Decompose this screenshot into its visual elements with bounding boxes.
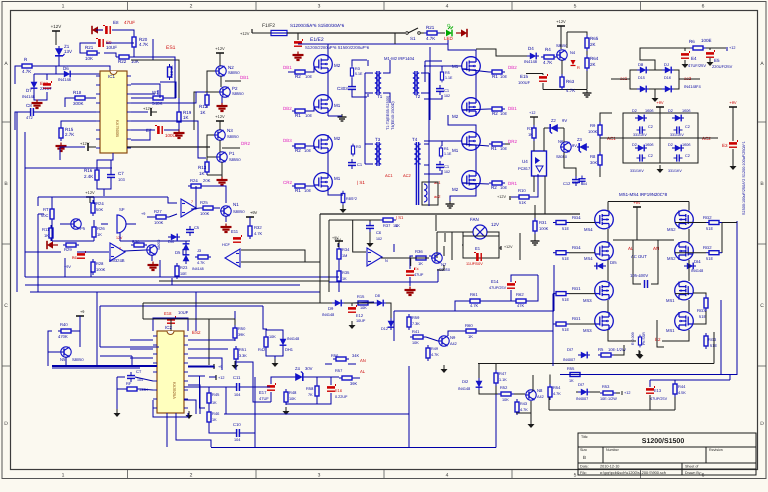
power +9V s2	[729, 100, 737, 113]
inductor L1	[422, 182, 438, 205]
svg-text:S1500:100uF/250A*2 S1200:100u: S1500:100uF/250A*2 S1200:100uF/250A*1	[742, 141, 746, 215]
wire	[52, 197, 94, 225]
wire net M	[195, 292, 197, 331]
ground	[636, 350, 643, 358]
svg-text:10E: 10E	[500, 111, 507, 116]
capacitor E1/E2	[294, 37, 370, 50]
diode DI2	[458, 378, 482, 391]
svg-text:C303: C303	[337, 86, 348, 91]
svg-text:Z2: Z2	[551, 118, 557, 123]
svg-text:R47: R47	[499, 371, 507, 376]
svg-text:M1-M2 IRF1404: M1-M2 IRF1404	[384, 56, 415, 61]
wire t2 links	[425, 47, 442, 120]
svg-text:+9V: +9V	[250, 210, 258, 215]
transformer T4	[412, 137, 421, 205]
ground	[531, 238, 540, 245]
label 331 b2	[668, 169, 682, 173]
wire	[410, 246, 444, 286]
transistor P2	[219, 86, 244, 97]
wire osc frame	[38, 197, 190, 241]
ground	[232, 361, 239, 369]
capacitor CT	[127, 369, 143, 382]
svg-text:2K: 2K	[590, 42, 596, 47]
svg-text:DR2: DR2	[241, 141, 250, 146]
resistor R62	[513, 292, 529, 308]
svg-text:R42: R42	[258, 347, 266, 352]
svg-text:M1: M1	[452, 148, 459, 153]
resistor R57	[335, 368, 357, 386]
ground	[730, 162, 737, 170]
svg-text:51K: 51K	[519, 200, 526, 205]
capacitor C6	[366, 220, 382, 241]
svg-text:R3: R3	[356, 145, 361, 149]
svg-text:1K: 1K	[44, 233, 49, 238]
svg-text:R48: R48	[289, 390, 297, 395]
svg-text:D16: D16	[664, 76, 671, 80]
power +12V r	[556, 19, 566, 32]
resistor RG2 b	[703, 245, 722, 261]
resistor R9	[588, 122, 602, 138]
wire	[367, 60, 369, 97]
svg-text:C1: C1	[444, 164, 450, 169]
wire	[613, 210, 674, 240]
svg-text:RG3: RG3	[708, 337, 717, 342]
svg-text:4.7K: 4.7K	[426, 36, 435, 41]
svg-text:R37: R37	[383, 223, 391, 228]
resistor R	[19, 57, 35, 74]
svg-text:R65: R65	[590, 36, 599, 41]
svg-text:+12V: +12V	[556, 19, 566, 24]
capacitor C303	[337, 83, 356, 93]
wire	[25, 250, 146, 277]
op-amp U2C	[367, 248, 388, 266]
wire	[534, 205, 536, 238]
svg-text:File:: File:	[580, 471, 587, 475]
svg-text:331/1KV: 331/1KV	[633, 133, 647, 137]
mosfet MS1 a	[666, 281, 693, 303]
resistor R2 b	[489, 107, 507, 116]
wire ic2 left2	[100, 306, 159, 366]
svg-text:7.3K: 7.3K	[412, 322, 420, 326]
svg-text:Z4: Z4	[295, 366, 301, 371]
wire	[569, 223, 722, 254]
mosfet MS3 a	[583, 281, 613, 303]
wire net H	[224, 366, 409, 448]
op-amp U3A	[181, 199, 196, 217]
svg-text:IN4148: IN4148	[58, 77, 72, 82]
svg-text:C1: C1	[444, 88, 450, 93]
node AL	[628, 246, 634, 251]
svg-text:300K: 300K	[73, 101, 84, 106]
svg-text:+12V: +12V	[85, 190, 95, 195]
svg-text:4.7K: 4.7K	[197, 261, 205, 265]
switch S1	[406, 28, 421, 41]
capacitor C2 2	[670, 125, 690, 137]
ground	[367, 239, 374, 247]
svg-text:DB1: DB1	[508, 106, 517, 111]
svg-text:4.7K: 4.7K	[431, 353, 439, 357]
resistor R13	[198, 159, 209, 176]
transistor N8	[525, 388, 544, 400]
svg-text:R18: R18	[73, 90, 82, 95]
svg-text:+12: +12	[624, 391, 630, 395]
svg-text:D6: D6	[63, 66, 69, 71]
svg-text:+12V: +12V	[497, 195, 506, 199]
svg-text:10E: 10E	[500, 146, 507, 151]
wire	[297, 33, 299, 40]
svg-text:R15: R15	[357, 294, 365, 299]
svg-text:4.7K: 4.7K	[254, 231, 263, 236]
wire	[104, 50, 175, 90]
svg-text:IN4148: IN4148	[322, 313, 334, 317]
diode D11	[374, 294, 386, 306]
wire	[308, 146, 343, 195]
diode D9	[322, 300, 344, 317]
svg-text:4.7K: 4.7K	[543, 60, 552, 65]
mosfet MS4 a	[584, 210, 613, 232]
svg-text:R1: R1	[295, 188, 301, 193]
svg-text:1K: 1K	[97, 232, 102, 237]
svg-text:RF: RF	[126, 381, 132, 386]
capacitor E18	[164, 310, 189, 323]
capacitor C8	[26, 103, 37, 120]
capacitor Ex	[406, 266, 424, 277]
wire	[207, 162, 222, 177]
svg-text:Z3: Z3	[577, 137, 583, 142]
transistor N2	[215, 65, 240, 76]
svg-text:IN4148: IN4148	[287, 337, 299, 341]
wire long bus	[25, 132, 112, 168]
capacitor C output	[645, 280, 648, 288]
resistor R53	[600, 384, 617, 401]
svg-text:10E: 10E	[500, 74, 507, 79]
svg-text:DB2: DB2	[508, 65, 517, 70]
wire net I	[211, 377, 496, 448]
svg-text:R63: R63	[566, 79, 575, 84]
svg-text:1K: 1K	[212, 401, 217, 405]
power arrow LED	[456, 29, 467, 37]
svg-text:1K: 1K	[200, 110, 206, 115]
svg-text:R1: R1	[492, 74, 498, 79]
svg-text:R2: R2	[491, 185, 497, 190]
svg-text:RG1: RG1	[572, 316, 581, 321]
resistor R21b	[424, 25, 440, 41]
mosfet M2 d	[452, 171, 480, 192]
svg-text:CT: CT	[136, 369, 142, 374]
wire	[426, 331, 553, 341]
label +9V osc	[141, 212, 145, 216]
node CR2	[283, 180, 292, 185]
svg-text:S8550: S8550	[556, 43, 568, 48]
label T1-T3	[386, 95, 395, 130]
capacitor C1 b	[436, 85, 450, 98]
svg-text:30V: 30V	[305, 366, 313, 371]
capacitor E13	[646, 386, 668, 401]
svg-text:+9V: +9V	[633, 200, 641, 205]
svg-text:1.1K: 1.1K	[499, 378, 507, 382]
resistor R32	[248, 223, 263, 239]
resistor R4	[541, 47, 557, 65]
label MS1-MS4	[619, 192, 668, 197]
svg-text:7: 7	[119, 247, 121, 251]
svg-text:R31: R31	[539, 220, 547, 225]
power +12V pin2	[80, 141, 94, 151]
resistor R23	[175, 263, 188, 279]
svg-text:1K: 1K	[528, 132, 533, 137]
svg-text:+9V: +9V	[656, 100, 664, 105]
svg-text:E1/E2: E1/E2	[310, 37, 324, 43]
svg-text:C7: C7	[118, 171, 124, 176]
ground	[114, 409, 121, 417]
svg-text:1606: 1606	[682, 143, 690, 147]
resistor R21	[84, 45, 100, 61]
capacitor C5	[186, 225, 200, 236]
svg-text:R4: R4	[545, 47, 551, 52]
svg-text:A42: A42	[537, 395, 544, 399]
label +12 u4	[529, 111, 538, 117]
op-amp U2A LM324	[109, 243, 125, 263]
label F1/F2	[262, 23, 275, 29]
svg-text:DI5: DI5	[610, 260, 617, 265]
svg-text:S8050: S8050	[72, 357, 84, 362]
svg-text:30K: 30K	[590, 160, 597, 165]
wire	[308, 107, 314, 111]
wire fan drop	[437, 232, 463, 258]
mosfet MS1 b	[666, 312, 693, 333]
svg-text:47UF/25V: 47UF/25V	[688, 63, 706, 68]
svg-text:C1: C1	[357, 162, 363, 167]
capacitor E3	[722, 140, 738, 148]
wire m bank links	[314, 67, 489, 184]
svg-text:R1: R1	[295, 113, 301, 118]
svg-text:SP: SP	[119, 207, 125, 212]
wire	[328, 115, 342, 117]
wire bus bot	[560, 375, 737, 381]
resistor R31	[533, 218, 549, 234]
svg-text:R8S*2: R8S*2	[346, 197, 357, 201]
diode D2 3	[632, 143, 653, 151]
node ac2 t4	[434, 194, 441, 199]
capacitor C7	[107, 171, 125, 182]
svg-text:R46: R46	[212, 411, 220, 416]
svg-text:ES2: ES2	[192, 330, 201, 335]
wire net F	[96, 292, 98, 366]
power +9V box	[334, 238, 341, 247]
wire top bus t	[328, 40, 448, 55]
ground	[446, 201, 455, 208]
svg-text:M1: M1	[334, 176, 341, 181]
svg-text:105-400V: 105-400V	[630, 273, 648, 278]
svg-text:4.5K: 4.5K	[678, 391, 686, 395]
svg-text:R: R	[577, 65, 580, 70]
wire	[476, 26, 587, 90]
svg-text:331/1KV: 331/1KV	[668, 169, 682, 173]
capacitor E1	[466, 246, 483, 266]
resistor R18	[72, 90, 88, 106]
svg-text:Revision: Revision	[709, 448, 723, 452]
svg-text:D: D	[760, 421, 764, 427]
wire sense rail	[320, 214, 580, 244]
svg-text:C: C	[4, 303, 8, 309]
svg-text:+9: +9	[141, 212, 145, 216]
power +12V r34	[332, 236, 343, 247]
svg-text:DB2: DB2	[283, 106, 292, 111]
label M1-M2 IRF1404	[384, 56, 415, 61]
diode D5b	[183, 252, 190, 264]
resistor R50	[233, 325, 246, 341]
ground	[682, 60, 689, 68]
svg-text:51E: 51E	[699, 314, 706, 319]
wire bot bus2	[236, 362, 332, 377]
svg-text:51E: 51E	[562, 256, 569, 261]
capacitor E9	[96, 39, 117, 51]
label 105-400V	[630, 273, 648, 278]
svg-text:E5: E5	[714, 58, 720, 63]
wire	[15, 112, 96, 130]
op-amp U2B flip	[222, 243, 240, 267]
svg-text:E13: E13	[654, 388, 662, 393]
svg-text:R6: R6	[689, 39, 695, 44]
capacitor C10	[233, 422, 243, 442]
resistor RG4 b	[553, 245, 581, 261]
svg-text:AC2: AC2	[403, 173, 412, 178]
svg-text:R24: R24	[190, 178, 198, 183]
svg-text:D5: D5	[175, 250, 181, 255]
svg-text:M2: M2	[452, 114, 459, 119]
svg-text:P1: P1	[229, 151, 235, 156]
optocoupler U4	[518, 151, 547, 176]
title block	[578, 433, 756, 475]
svg-text:3: 3	[318, 473, 321, 479]
wire	[48, 316, 80, 352]
svg-text:C10: C10	[233, 422, 241, 427]
resistor R10	[516, 188, 532, 205]
capacitor C2 4	[674, 154, 690, 162]
wire	[207, 92, 222, 103]
svg-text:9V: 9V	[562, 118, 567, 123]
ground	[272, 359, 279, 367]
svg-text:R62: R62	[516, 292, 524, 297]
wire	[131, 98, 179, 140]
speaker SP	[117, 207, 126, 233]
svg-text:5: 5	[574, 4, 577, 10]
resistor R44	[673, 381, 686, 397]
wire long bus1	[25, 276, 339, 278]
power +12V u4	[497, 195, 510, 200]
svg-text:IN4007: IN4007	[576, 397, 588, 401]
diode D2 4	[668, 143, 690, 151]
resistor R1v	[439, 146, 452, 159]
svg-text:R7: R7	[527, 126, 533, 131]
svg-text:T1: T1	[377, 94, 383, 99]
svg-text:R11: R11	[42, 227, 50, 232]
svg-text:D9: D9	[328, 306, 334, 311]
svg-text:4: 4	[446, 4, 449, 10]
svg-text:R21: R21	[85, 45, 94, 50]
ground	[637, 351, 644, 359]
power arrow E8	[92, 26, 103, 34]
wire ic2 left	[130, 340, 153, 358]
resistor R5	[440, 70, 453, 83]
wire	[61, 121, 96, 125]
svg-text:CR2: CR2	[283, 180, 292, 185]
svg-text:R1: R1	[491, 146, 497, 151]
svg-text:F1/F2: F1/F2	[262, 23, 275, 29]
svg-text:DJ: DJ	[664, 62, 669, 67]
wire	[288, 67, 314, 72]
svg-text:MS3: MS3	[583, 298, 592, 303]
wire	[252, 32, 405, 34]
svg-text:R5: R5	[598, 347, 604, 352]
svg-text:N1: N1	[233, 202, 239, 207]
resistor R54	[548, 384, 561, 400]
resistor R65	[585, 35, 599, 51]
svg-text:10K: 10K	[412, 341, 419, 345]
ground	[583, 90, 592, 97]
resistor R35	[337, 268, 350, 284]
wire	[448, 115, 476, 201]
wire	[567, 32, 587, 90]
resistor R41	[410, 329, 426, 345]
svg-text:1K: 1K	[183, 115, 189, 120]
wire net N	[235, 311, 236, 370]
svg-text:R36: R36	[415, 249, 423, 254]
svg-text:C5: C5	[194, 225, 200, 230]
LED G	[444, 23, 454, 41]
svg-text:R13: R13	[198, 165, 207, 170]
svg-text:13V: 13V	[64, 49, 72, 54]
fuse F1/F2	[271, 30, 287, 35]
label shunt	[631, 332, 646, 345]
svg-text:D2: D2	[668, 143, 673, 147]
svg-text:DR1: DR1	[508, 181, 517, 186]
svg-text:AN: AN	[360, 358, 366, 363]
svg-text:S8550: S8550	[232, 91, 244, 96]
svg-text:10E: 10E	[305, 113, 312, 118]
wire	[732, 107, 734, 162]
wire long bus2	[25, 284, 300, 286]
wire	[194, 53, 241, 130]
svg-text:1K: 1K	[569, 379, 574, 383]
wire	[352, 60, 367, 97]
svg-text:C: C	[760, 303, 764, 309]
svg-text:IN4148: IN4148	[458, 387, 470, 391]
svg-text:R54: R54	[553, 385, 561, 390]
svg-text:AC1: AC1	[385, 173, 394, 178]
svg-text:HCF: HCF	[222, 243, 230, 247]
svg-text:D7: D7	[26, 88, 32, 93]
svg-text:+9: +9	[80, 310, 84, 314]
svg-text:E3: E3	[722, 143, 728, 148]
resistor R1 d	[489, 142, 507, 151]
resistor R3 r	[351, 144, 360, 157]
ground	[441, 365, 448, 373]
wire	[608, 202, 689, 211]
svg-text:100E: 100E	[701, 38, 712, 43]
svg-text:R10: R10	[518, 188, 526, 193]
svg-text:M2: M2	[334, 136, 341, 141]
wire cmp verts	[159, 214, 329, 303]
wire	[97, 181, 111, 196]
svg-text:11UF/50V: 11UF/50V	[466, 262, 483, 266]
svg-text:N8: N8	[537, 388, 543, 393]
resistor R2 d	[489, 181, 507, 190]
wire	[478, 364, 714, 411]
wire	[576, 392, 620, 393]
svg-text:MS1: MS1	[666, 328, 675, 333]
transistor N1	[220, 202, 245, 216]
wire ms black L	[657, 320, 714, 364]
